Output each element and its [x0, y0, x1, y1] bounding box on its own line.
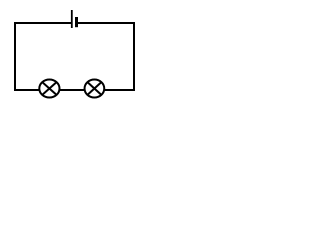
wire bottom: [14, 89, 135, 91]
lamp L2 cross: [87, 82, 101, 95]
wire top left segment: [14, 22, 72, 24]
battery cell B1 short plate: [75, 17, 78, 27]
lamp L2 circle: [85, 79, 105, 97]
battery cell B1 long plate: [71, 10, 73, 28]
wire top right segment: [78, 22, 135, 24]
wire right vertical: [133, 22, 135, 91]
wire left vertical: [14, 22, 16, 91]
lamp L1 cross: [42, 82, 57, 95]
lamp L1 circle: [39, 79, 59, 97]
